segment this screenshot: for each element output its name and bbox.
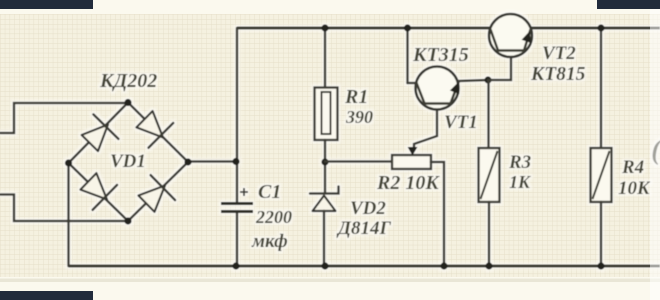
diode top-right	[136, 111, 173, 148]
svg-text:КД202: КД202	[99, 70, 157, 92]
node bottom (AC)	[124, 217, 131, 224]
svg-text:VD1: VD1	[110, 151, 146, 172]
svg-text:мкф: мкф	[251, 231, 288, 252]
svg-text:C1: C1	[258, 181, 281, 203]
diode bottom-left	[80, 173, 117, 210]
svg-text:390: 390	[345, 107, 373, 127]
diode bottom-right	[138, 175, 175, 212]
potentiometer R2	[325, 155, 444, 266]
bridge edge wire BR	[128, 162, 188, 221]
wire bottom rail	[69, 265, 660, 268]
wire bridge left node to bottom rail	[67, 163, 70, 266]
svg-text:Д814Г: Д814Г	[336, 218, 391, 239]
svg-text:VT1: VT1	[444, 112, 478, 133]
node bridge-C1 junction	[232, 158, 239, 165]
wire top rail right segment	[531, 27, 660, 30]
node VT1 rail junction	[404, 24, 411, 31]
wire C1 branch lower	[236, 212, 239, 267]
svg-text:VT2: VT2	[542, 43, 576, 64]
node R4 rail junction	[597, 24, 604, 31]
node C1 bottom	[232, 262, 239, 269]
svg-text:КТ315: КТ315	[412, 44, 469, 66]
transistor VT2 (КТ815)	[489, 14, 532, 57]
zener diode VD2	[310, 187, 339, 267]
bridge edge wire BL	[69, 163, 129, 221]
node R2 bottom	[440, 262, 447, 269]
wire AC input stub 2	[0, 195, 128, 222]
svg-text:2200: 2200	[255, 207, 292, 227]
white fade on right edge	[650, 9, 660, 300]
node R1 top rail junction	[321, 24, 328, 31]
diode bridge VD1: diode top-left	[82, 114, 119, 151]
node right	[184, 158, 191, 165]
svg-text:R4: R4	[621, 157, 644, 178]
svg-text:VD2: VD2	[350, 198, 386, 219]
resistor R3	[479, 80, 500, 266]
svg-text:R1: R1	[344, 86, 368, 108]
node R1/R2/VD2 junction	[321, 158, 328, 165]
bridge edge wire TR	[128, 103, 188, 163]
node left	[65, 159, 72, 166]
wire AC input stub 1	[0, 103, 128, 133]
wire top rail left segment	[237, 27, 490, 30]
resistor R1	[315, 28, 338, 193]
node R4 bottom	[597, 262, 604, 269]
svg-text:R3: R3	[508, 152, 531, 173]
wire VT2 base	[488, 51, 511, 81]
wire VT1 collector to top rail	[406, 28, 409, 83]
wire C1 branch upper	[236, 28, 239, 203]
dark corner strip top-right	[597, 0, 660, 9]
svg-text:R2 10K: R2 10K	[376, 172, 440, 194]
svg-text:1K: 1K	[509, 172, 532, 192]
svg-text:КТ815: КТ815	[530, 64, 586, 85]
bridge edge wire TL	[69, 103, 129, 164]
node top (AC)	[124, 99, 131, 106]
transistor VT1 (КТ315)	[408, 67, 489, 110]
dark corner strip top-left	[0, 0, 93, 9]
wire bridge right node to C1	[188, 160, 237, 163]
resistor R4	[591, 28, 612, 266]
dark corner strip bottom-left	[0, 291, 93, 300]
R2 wiper arrow from VT1 base	[408, 110, 438, 156]
node VD2 bottom	[321, 262, 328, 269]
svg-text:10K: 10K	[618, 178, 651, 199]
capacitor C1	[221, 188, 253, 212]
node R3 bottom	[485, 262, 492, 269]
node VT1 emitter / VT2 base / R3 junction	[484, 76, 491, 83]
